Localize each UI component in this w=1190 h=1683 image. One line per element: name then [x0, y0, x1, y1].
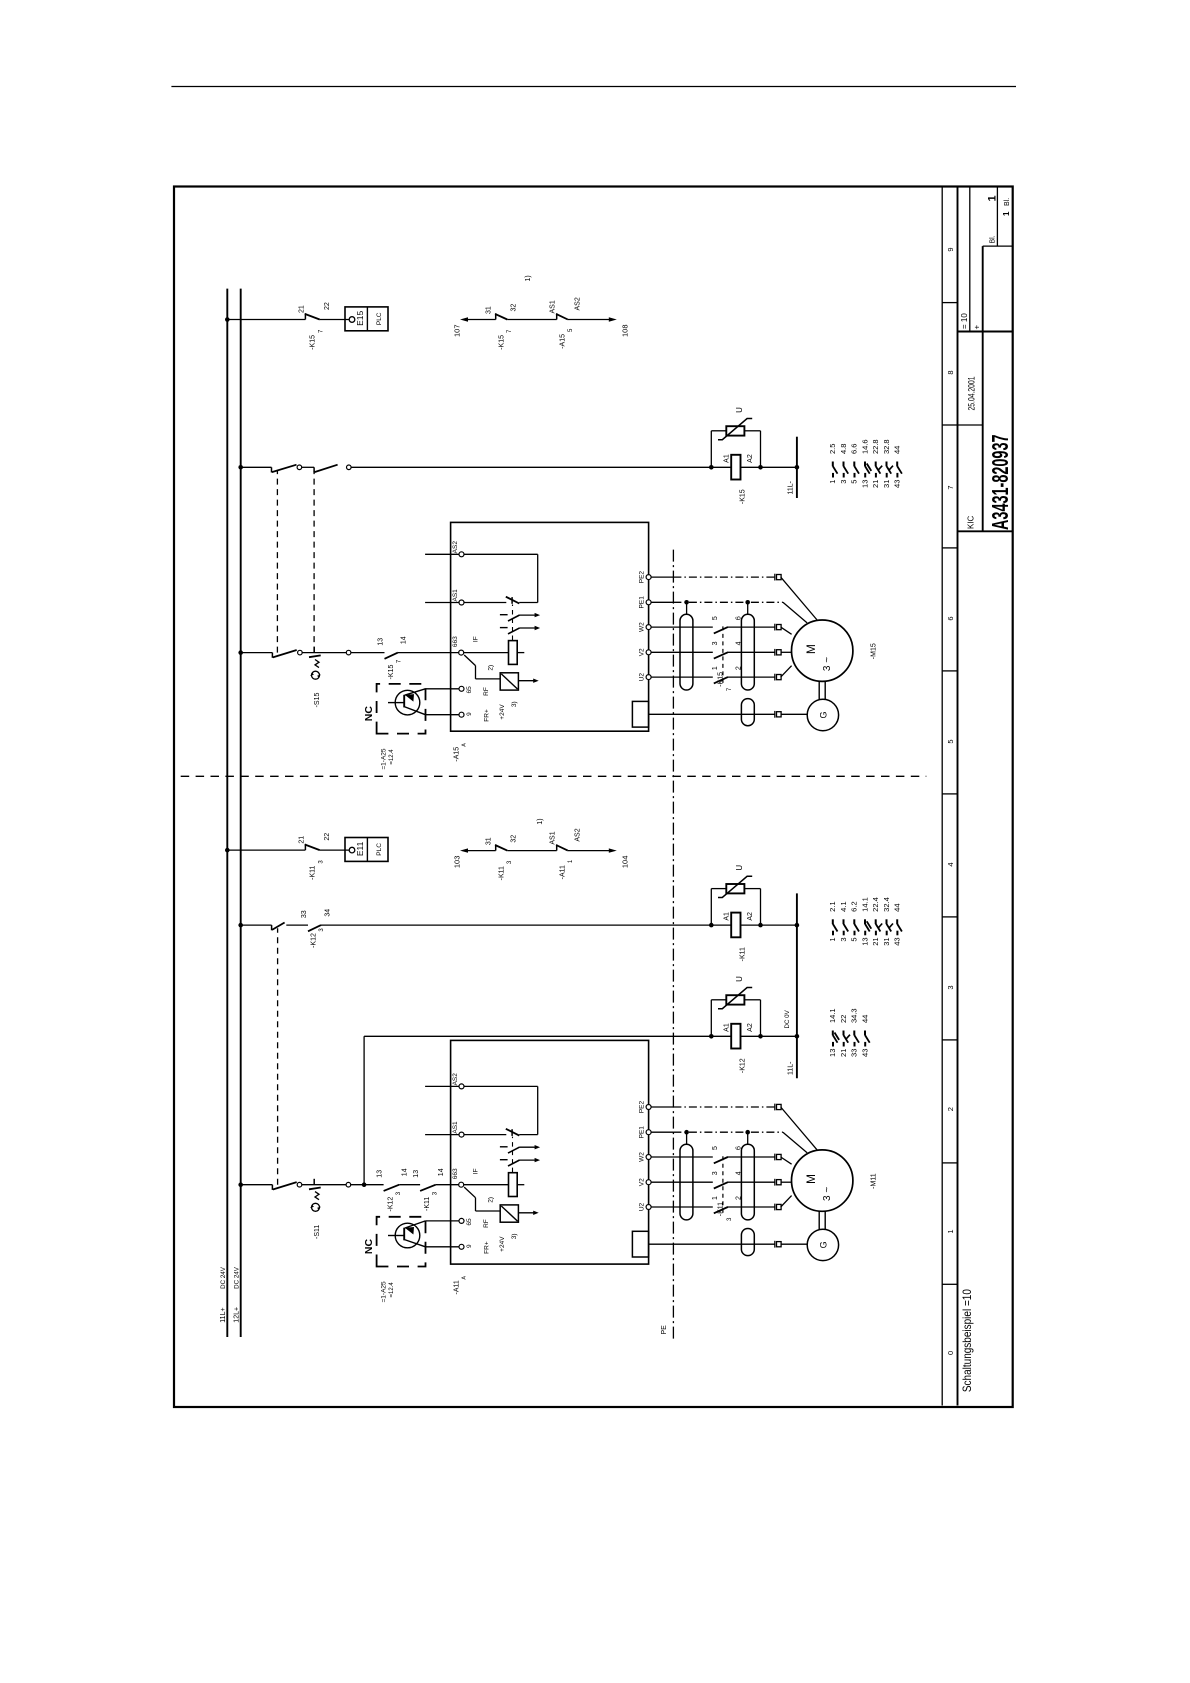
- wire V2: [651, 651, 775, 653]
- linkage dashed line: [512, 605, 514, 641]
- svg-text:11L-: 11L-: [787, 480, 794, 494]
- svg-text:-K11: -K11: [424, 1197, 431, 1211]
- plug circle: [297, 465, 302, 470]
- svg-text:31: 31: [485, 306, 492, 314]
- internal wire AS1 leg: [519, 1134, 537, 1136]
- shaft coupling: [818, 681, 820, 699]
- device box -A15: [451, 522, 649, 731]
- svg-text:E15: E15: [355, 310, 365, 325]
- svg-text:-A11: -A11: [453, 1280, 460, 1294]
- svg-text:AS2: AS2: [574, 828, 581, 841]
- column numbers 0-9: [946, 247, 955, 1355]
- contact -K15 21/22 (NC): [304, 313, 306, 319]
- svg-text:M: M: [804, 1174, 818, 1184]
- svg-text:3: 3: [839, 480, 848, 484]
- svg-text:IF: IF: [472, 636, 479, 642]
- svg-text:3 ~: 3 ~: [822, 657, 833, 671]
- internal wire AS2 leg: [464, 553, 538, 555]
- transistor circle (sensor output): [395, 1223, 420, 1248]
- terminal circle AS2: [459, 1084, 464, 1089]
- svg-text:-M15: -M15: [870, 643, 877, 659]
- wire coil to 11L-: [741, 466, 797, 468]
- svg-text:14.1: 14.1: [860, 897, 869, 912]
- svg-text:A2: A2: [747, 454, 754, 463]
- svg-text:PE2: PE2: [638, 571, 645, 584]
- svg-text:-K12: -K12: [740, 1058, 747, 1073]
- svg-text:108: 108: [620, 325, 629, 338]
- svg-text:43: 43: [860, 1049, 869, 1057]
- svg-text:=1-A25: =1-A25: [380, 1281, 387, 1303]
- wire G into encoder: [781, 713, 808, 715]
- contact -K12 33/34 (NO): [308, 925, 321, 931]
- title block divider v808.9: [982, 246, 984, 531]
- svg-text:1): 1): [525, 275, 532, 281]
- svg-text:9: 9: [466, 1244, 473, 1248]
- svg-text:3 ~: 3 ~: [822, 1187, 833, 1201]
- trip contact -S15 pole1 b: [313, 647, 315, 653]
- linkage dashed line -S11: [277, 928, 279, 1184]
- internal forced contact 1: [500, 614, 508, 616]
- svg-text:A1: A1: [723, 912, 730, 921]
- plug connector: [774, 1179, 776, 1186]
- wire PE1 into motor: [783, 602, 807, 623]
- cable screen capsule 2: [741, 614, 754, 690]
- svg-text:4.8: 4.8: [839, 444, 848, 454]
- wire -K12 coil to 11L-: [741, 1035, 797, 1037]
- turn-release detent symbol: [312, 671, 320, 679]
- encoder cable capsule: [741, 699, 754, 726]
- stub wire AS2: [425, 1085, 459, 1087]
- svg-text:32.8: 32.8: [882, 439, 891, 454]
- internal wire after IF coil: [517, 652, 524, 654]
- svg-text:3: 3: [946, 985, 955, 989]
- terminal line 11L- (bottom): [796, 893, 798, 1078]
- wire to K12 feeder: [351, 1184, 384, 1186]
- wire to terminal 65: [405, 1221, 426, 1228]
- arrow 107: [460, 317, 468, 321]
- svg-text:5: 5: [712, 1146, 719, 1150]
- wire plug to coil: [351, 466, 731, 468]
- terminal circle PE2: [646, 575, 651, 580]
- stub wire AS1: [425, 1134, 459, 1136]
- svg-text:-K12: -K12: [310, 933, 317, 948]
- svg-text:-K11: -K11: [309, 866, 316, 880]
- transistor base bar: [403, 1228, 405, 1241]
- svg-text:5: 5: [946, 739, 955, 743]
- wire 663 branch diagonal: [464, 1187, 475, 1198]
- plug connector: [774, 1154, 776, 1161]
- contact -K11 21/22 (NC): [304, 844, 306, 850]
- plug circle: [346, 1182, 351, 1187]
- svg-text:-K11: -K11: [740, 947, 747, 961]
- svg-text:-K11: -K11: [498, 866, 505, 880]
- svg-text:21: 21: [839, 1049, 848, 1057]
- svg-text:U: U: [735, 407, 744, 413]
- svg-text:22.8: 22.8: [871, 439, 880, 454]
- svg-text:107: 107: [452, 325, 461, 338]
- wire to terminal 9: [404, 707, 425, 715]
- svg-text:32.4: 32.4: [882, 897, 891, 912]
- wire -S15 rung from bus 12L+: [241, 652, 273, 654]
- svg-text:-K15: -K15: [388, 665, 395, 680]
- disconnect -S15 pole2 contact b: [313, 467, 315, 472]
- encoder G circle: [807, 1229, 838, 1260]
- svg-text:3: 3: [712, 1171, 719, 1175]
- screen link to PE1: [686, 602, 688, 614]
- svg-text:V2: V2: [638, 648, 645, 656]
- plug circle: [297, 1182, 302, 1187]
- wire PE2 into motor: [781, 1107, 817, 1150]
- svg-text:A1: A1: [723, 1023, 730, 1032]
- internal wire 663 to IF coil: [464, 652, 509, 654]
- relay coil IF: [509, 641, 518, 665]
- svg-text:-A11: -A11: [559, 865, 566, 879]
- svg-text:AS1: AS1: [452, 589, 459, 602]
- bus 11L+: [226, 289, 228, 1337]
- svg-text:2): 2): [487, 1197, 494, 1203]
- svg-text:PLC: PLC: [376, 312, 383, 325]
- svg-text:A2: A2: [747, 912, 754, 921]
- disconnect -S11 pole1 contact a: [271, 1185, 273, 1190]
- linkage dashed line -S15 (upper): [276, 471, 278, 653]
- contact -K15 31/32 (NC): [496, 318, 508, 322]
- terminal circle 65: [459, 1218, 464, 1223]
- transistor base lead: [388, 1235, 404, 1237]
- wire V2: [651, 1181, 775, 1183]
- svg-text:13: 13: [376, 1170, 383, 1178]
- disconnect -S15 pole2 contact a: [271, 467, 273, 472]
- plug connector: [774, 574, 776, 581]
- contact -K12 13/14 (NO): [384, 1185, 400, 1191]
- main contact -K15 3/4: [713, 650, 728, 654]
- terminal circle 663: [459, 1182, 464, 1187]
- wire U2 into motor: [781, 1196, 792, 1207]
- svg-text:14: 14: [401, 1168, 408, 1176]
- svg-text:PE: PE: [661, 1325, 668, 1335]
- wire PE1 (solid part): [651, 601, 673, 603]
- wire U2: [651, 1206, 775, 1208]
- terminal circle V2: [646, 1180, 651, 1185]
- svg-text:1: 1: [828, 937, 837, 941]
- svg-text:-S15: -S15: [314, 693, 321, 708]
- svg-text:5: 5: [850, 937, 859, 941]
- svg-text:33: 33: [301, 910, 308, 918]
- svg-text:13: 13: [828, 1049, 837, 1057]
- svg-text:13: 13: [377, 638, 384, 646]
- svg-text:NC: NC: [363, 706, 375, 722]
- title block Bl-cells divider: [996, 187, 998, 247]
- cable screen capsule 2: [741, 1144, 754, 1220]
- svg-text:22: 22: [324, 302, 331, 310]
- contact -A11 AS1/AS2 (NC): [557, 849, 568, 853]
- title block cell line u1161.4: [983, 245, 1013, 247]
- svg-text:34.3: 34.3: [850, 1008, 859, 1023]
- svg-text:U: U: [735, 976, 744, 982]
- svg-text:14: 14: [438, 1168, 445, 1176]
- arrow 104: [609, 848, 617, 852]
- plug connector: [774, 674, 776, 681]
- svg-text:A: A: [461, 743, 467, 747]
- svg-text:1): 1): [537, 818, 544, 824]
- svg-text:Bl.: Bl.: [1004, 198, 1011, 206]
- svg-text:AS1: AS1: [549, 831, 556, 844]
- title block cell line u982.5: [958, 424, 983, 426]
- svg-text:DC 0V: DC 0V: [784, 1009, 791, 1028]
- svg-text:11L-: 11L-: [787, 1061, 794, 1075]
- svg-text:DC 24V: DC 24V: [233, 1266, 240, 1289]
- svg-text:13: 13: [860, 937, 869, 945]
- svg-text:-A15: -A15: [453, 747, 460, 762]
- disconnect -S11 pole2: [271, 925, 273, 930]
- title block left border: [958, 530, 1013, 532]
- terminal circle E11: [349, 847, 355, 853]
- turn-release detent symbol: [312, 1203, 320, 1211]
- svg-text:14.6: 14.6: [860, 439, 869, 454]
- svg-text:32: 32: [510, 304, 517, 312]
- transistor emitter arrow: [405, 694, 414, 702]
- svg-text:V2: V2: [638, 1178, 645, 1186]
- svg-text:65: 65: [466, 686, 473, 694]
- feeder wire to -K12 rung: [363, 1036, 365, 1184]
- svg-text:21: 21: [871, 480, 880, 488]
- motor -M11 circle: [792, 1150, 853, 1211]
- svg-text:663: 663: [452, 636, 459, 647]
- contact -K11 31/32 (NC): [496, 849, 508, 853]
- spring symbol: [315, 1192, 319, 1200]
- bus 12L+: [240, 289, 242, 1337]
- svg-text:=1-A25: =1-A25: [380, 748, 387, 770]
- svg-text:A3431-820937: A3431-820937: [987, 435, 1013, 531]
- bottom margin strip line 1: [941, 187, 943, 1406]
- svg-text:-K15: -K15: [309, 335, 316, 350]
- plug connector: [774, 711, 776, 718]
- wire E11 rung from bus 11L+: [227, 849, 305, 851]
- wire: [286, 924, 308, 926]
- coil -K11 with varistor: [710, 889, 712, 926]
- terminal circle 9: [459, 712, 464, 717]
- svg-text:104: 104: [620, 856, 629, 869]
- svg-text:AS2: AS2: [452, 1073, 459, 1086]
- wire W2: [651, 1156, 775, 1158]
- svg-text:663: 663: [452, 1168, 459, 1179]
- wire V2 into motor: [781, 651, 792, 653]
- plug connector: [774, 649, 776, 656]
- svg-text:AS1: AS1: [452, 1121, 459, 1134]
- plug circle: [347, 465, 352, 470]
- svg-text:+: +: [972, 325, 981, 330]
- wire -K11 coil rung from bus 12L+: [241, 924, 272, 926]
- svg-text:21: 21: [871, 937, 880, 945]
- svg-text:32: 32: [510, 835, 517, 843]
- main contact -K11 5/6: [713, 1155, 728, 1159]
- svg-text:5: 5: [712, 616, 719, 620]
- plug connector: [774, 1204, 776, 1211]
- wire to terminal 65: [405, 689, 426, 695]
- main contact -K11 3/4: [713, 1180, 728, 1184]
- svg-text:DC 24V: DC 24V: [220, 1266, 227, 1289]
- relay coil IF: [509, 1173, 518, 1197]
- plug connector: [774, 1241, 776, 1248]
- svg-text:A: A: [461, 1276, 467, 1280]
- svg-text:-K15: -K15: [740, 489, 747, 504]
- arrow 103: [460, 848, 468, 852]
- wire through trip contact: [302, 652, 346, 654]
- wire PE1 into motor: [783, 1132, 807, 1153]
- drawing frame border: [174, 187, 1013, 1408]
- stub wire AS1: [425, 602, 459, 604]
- svg-text:KIC: KIC: [966, 515, 975, 529]
- plug circle: [346, 650, 351, 655]
- svg-text:PE1: PE1: [638, 596, 645, 609]
- svg-text:1: 1: [828, 480, 837, 484]
- wire W2 into motor: [781, 627, 792, 634]
- svg-text:9: 9: [466, 712, 473, 716]
- terminal circle 65: [459, 686, 464, 691]
- wire PE2 (solid part): [651, 576, 673, 578]
- main contact -K15 5/6: [713, 625, 728, 629]
- coil -K12 with varistor: [710, 1000, 712, 1037]
- screen link 2 to PE1: [747, 1132, 749, 1144]
- terminal circle AS2: [459, 552, 464, 557]
- linkage dashed line -S15 (lower): [313, 471, 315, 653]
- title block row divider v796: [969, 187, 971, 332]
- device box E15/PLC: [345, 307, 388, 331]
- wire to terminal 9: [404, 1240, 425, 1247]
- transistor emitter arrow: [405, 1227, 414, 1235]
- svg-text:3): 3): [511, 701, 518, 707]
- wire contact 14 to terminal 663: [398, 652, 459, 654]
- linkage dashed -K15 main: [722, 624, 724, 683]
- wire U2: [651, 676, 775, 678]
- PE conductor dash-dot line: [672, 547, 674, 1339]
- svg-text:A2: A2: [747, 1023, 754, 1032]
- svg-text:44: 44: [893, 903, 902, 911]
- svg-text:7: 7: [946, 485, 955, 489]
- svg-text:103: 103: [452, 856, 461, 869]
- internal wire cross: [537, 1086, 539, 1134]
- svg-text:U: U: [735, 865, 744, 871]
- internal wire after IF coil: [517, 1184, 524, 1186]
- svg-text:4: 4: [946, 862, 955, 866]
- svg-text:W2: W2: [638, 622, 645, 632]
- arrow 108: [609, 317, 617, 321]
- plug connector: [774, 1104, 776, 1111]
- svg-text:3: 3: [712, 641, 719, 645]
- wire contact to E11 box: [320, 849, 350, 851]
- wire G into encoder: [781, 1243, 808, 1245]
- encoder cable capsule: [741, 1229, 754, 1256]
- svg-text:PE1: PE1: [638, 1126, 645, 1139]
- internal wire AS1 leg: [519, 602, 537, 604]
- svg-text:-K15: -K15: [717, 672, 724, 687]
- main contact -K15 1/2: [713, 675, 728, 679]
- svg-text:NC: NC: [363, 1239, 375, 1255]
- optocoupler box: [500, 1205, 518, 1222]
- stub wire AS2: [425, 553, 459, 555]
- svg-text:21: 21: [298, 836, 305, 844]
- device box E11/PLC: [345, 838, 388, 862]
- transistor base lead: [388, 702, 404, 704]
- wire PE1 dash-dot: [673, 1131, 782, 1133]
- internal forced contact 2: [500, 1159, 508, 1161]
- svg-text:-K15: -K15: [498, 335, 505, 350]
- motor -M15 circle: [792, 620, 853, 681]
- svg-text:6.6: 6.6: [850, 444, 859, 454]
- svg-text:1: 1: [1002, 211, 1011, 216]
- svg-text:6: 6: [946, 616, 955, 620]
- arrow out of optocoupler: [518, 1212, 534, 1214]
- svg-text:43: 43: [893, 480, 902, 488]
- internal NC contact (start inhibit relay): [506, 1129, 520, 1136]
- terminal circle U2: [646, 1205, 651, 1210]
- svg-text:33: 33: [850, 1049, 859, 1057]
- svg-text:1: 1: [712, 1196, 719, 1200]
- terminal circle PE1: [646, 1130, 651, 1135]
- svg-text:3: 3: [839, 937, 848, 941]
- svg-text:+24V: +24V: [499, 1236, 506, 1252]
- wire W2: [651, 626, 775, 628]
- wire E15 rung from bus 11L+: [227, 319, 305, 321]
- svg-text:25.04.2001: 25.04.2001: [966, 377, 976, 411]
- svg-text:-S11: -S11: [314, 1225, 321, 1239]
- wire coil to 11L-: [741, 924, 797, 926]
- svg-text:43: 43: [893, 937, 902, 945]
- terminal circle 9: [459, 1244, 464, 1249]
- svg-text:G: G: [818, 711, 828, 718]
- column tick marks: [942, 303, 957, 1285]
- svg-text:6.2: 6.2: [850, 901, 859, 911]
- terminal line 11L- (top): [796, 437, 798, 498]
- transistor circle (sensor output): [395, 690, 420, 715]
- internal forced contact 2: [500, 627, 508, 629]
- internal wire AS2 leg: [464, 1085, 538, 1087]
- svg-text:= 10: = 10: [960, 313, 969, 329]
- svg-text:5: 5: [850, 480, 859, 484]
- cable screen capsule: [680, 614, 693, 690]
- encoder interface box: [632, 701, 648, 727]
- transistor base bar: [403, 695, 405, 708]
- NC control dashed box -A25: [377, 684, 426, 734]
- svg-text:W2: W2: [638, 1152, 645, 1162]
- svg-text:Schaltungsbeispiel =10: Schaltungsbeispiel =10: [960, 1289, 974, 1392]
- wire PE2 into motor: [781, 577, 817, 620]
- svg-text:PLC: PLC: [376, 843, 383, 856]
- bottom margin strip line 2: [957, 187, 959, 1406]
- spring symbol: [315, 660, 319, 668]
- contact -K11 13/14 (NO): [420, 1185, 436, 1191]
- svg-text:21: 21: [298, 305, 305, 313]
- internal wire cross: [537, 554, 539, 602]
- optocoupler box: [500, 673, 518, 690]
- svg-text:2): 2): [487, 665, 494, 671]
- wire G encoder: [649, 1243, 776, 1245]
- svg-text:U2: U2: [638, 1202, 645, 1211]
- wire between contacts: [399, 1184, 420, 1186]
- svg-text:FR+: FR+: [483, 709, 490, 722]
- terminal circle E15: [349, 317, 355, 323]
- svg-text:13: 13: [860, 480, 869, 488]
- channel separator dashed line: [181, 775, 927, 777]
- svg-text:-A15: -A15: [559, 334, 566, 349]
- svg-text:E11: E11: [355, 841, 365, 856]
- svg-text:22: 22: [839, 1015, 848, 1023]
- NC control dashed box -A25: [377, 1217, 426, 1267]
- svg-text:+24V: +24V: [499, 704, 506, 720]
- svg-text:31: 31: [485, 837, 492, 845]
- terminal circle V2: [646, 650, 651, 655]
- terminal circle PE2: [646, 1105, 651, 1110]
- svg-text:-K11: -K11: [717, 1202, 724, 1216]
